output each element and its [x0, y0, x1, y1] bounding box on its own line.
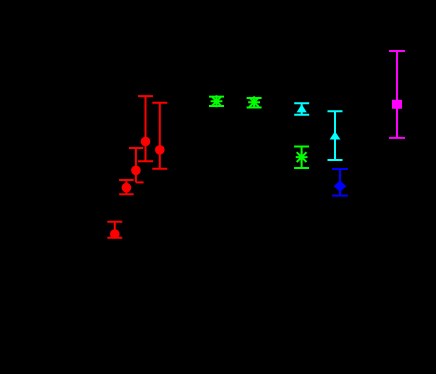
red series markers (filled circles) [110, 137, 165, 239]
red point P3 error bar [129, 148, 144, 182]
blue point B1 error bar [332, 169, 348, 196]
green series markers (stars) [211, 95, 308, 163]
red point P5 error bar [107, 222, 122, 238]
magenta marker M1 (filled square) [392, 100, 402, 109]
cyan triangle C2 [330, 131, 341, 139]
red marker P1 [141, 137, 151, 147]
green star G2 [248, 96, 260, 108]
blue marker B1 (filled diamond) [334, 180, 346, 192]
cyan triangle C1 [297, 104, 307, 112]
red marker P3 [131, 166, 141, 176]
red point P4 error bar [119, 180, 134, 194]
red series error bars [107, 96, 167, 238]
green point G3 error bar [294, 147, 309, 169]
red marker P2 [155, 145, 165, 155]
green point G1 error bar [209, 97, 224, 106]
green point G2 error bar [247, 98, 262, 108]
cyan point C1 error bar [294, 103, 309, 115]
magenta series error bar [389, 51, 405, 138]
green star G1 [211, 95, 223, 107]
cyan point C2 error bar [328, 111, 343, 160]
green series error bars [209, 97, 309, 168]
cyan series error bars [294, 103, 342, 160]
red marker P4 [122, 183, 132, 193]
blue series error bar [332, 169, 348, 196]
cyan series markers (filled triangles) [297, 104, 341, 139]
red marker P5 [110, 229, 120, 239]
red point P1 error bar [138, 96, 153, 161]
magenta point M1 error bar [389, 51, 405, 138]
red point P2 error bar [152, 103, 167, 169]
green star G3 [296, 151, 308, 163]
